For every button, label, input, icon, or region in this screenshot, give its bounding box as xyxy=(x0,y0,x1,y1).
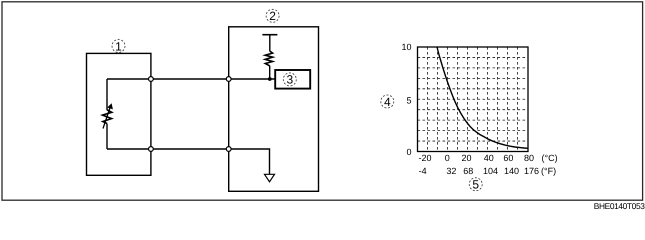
wire: thermistor branch bottom (inside sensor) xyxy=(107,148,151,150)
svg-text:10: 10 xyxy=(401,42,411,52)
graph plot border (axes) xyxy=(418,47,529,152)
svg-text:140: 140 xyxy=(504,166,519,176)
svg-text:32: 32 xyxy=(446,166,456,176)
terminal node: control unit bottom (open junction) xyxy=(226,147,231,152)
wire: signal into block 3 xyxy=(229,78,275,80)
svg-text:60: 60 xyxy=(503,153,513,163)
svg-text:1: 1 xyxy=(115,39,122,53)
resistor (pull-up in control unit) xyxy=(265,51,273,79)
sensor box 1 (coolant temperature sensor outline) xyxy=(87,53,151,175)
terminal node: sensor top (open junction) xyxy=(149,77,154,82)
callout 4 (resistance axis) xyxy=(381,95,394,109)
resistance vs temperature curve xyxy=(437,47,528,148)
wire: bottom ground wire sensor to control unit xyxy=(151,148,229,150)
terminal node: sensor bottom (open junction) xyxy=(149,147,154,152)
svg-text:(°F): (°F) xyxy=(541,166,556,176)
svg-text:5: 5 xyxy=(406,96,411,106)
x-axis Celsius labels xyxy=(418,153,534,163)
wire: ground run inside control unit xyxy=(229,149,270,174)
svg-text:(°C): (°C) xyxy=(542,153,558,163)
svg-text:176: 176 xyxy=(524,166,539,176)
control unit box 2 outline xyxy=(229,27,319,192)
svg-text:20: 20 xyxy=(461,153,471,163)
graph vertical dashed grid xyxy=(428,47,518,152)
callout 1 (sensor) xyxy=(112,39,125,53)
terminal node: control unit top (open junction) xyxy=(226,77,231,82)
block box 3 (gauge/amplifier block) xyxy=(275,70,310,89)
svg-text:40: 40 xyxy=(484,153,494,163)
svg-text:2: 2 xyxy=(269,9,276,23)
svg-text:-4: -4 xyxy=(419,166,427,176)
svg-text:68: 68 xyxy=(463,166,473,176)
power supply symbol xyxy=(262,35,277,52)
junction dot at resistor / signal wire xyxy=(268,77,272,81)
svg-text:3: 3 xyxy=(286,73,293,87)
callout 3 (block) xyxy=(283,73,296,87)
y-axis labels (resistance 0-10) xyxy=(401,42,411,157)
thermistor (variable resistor with arrow) xyxy=(103,79,113,149)
svg-text:5: 5 xyxy=(472,178,479,192)
svg-text:-20: -20 xyxy=(418,153,431,163)
wire: thermistor branch top (inside sensor) xyxy=(107,78,151,80)
wire: top signal wire sensor to control unit xyxy=(151,78,229,80)
svg-text:0: 0 xyxy=(445,153,450,163)
svg-text:4: 4 xyxy=(384,95,391,109)
x-axis Fahrenheit labels xyxy=(419,166,539,176)
svg-text:0: 0 xyxy=(406,147,411,157)
graph horizontal dashed grid xyxy=(418,57,529,141)
svg-text:80: 80 xyxy=(524,153,534,163)
svg-text:104: 104 xyxy=(483,166,498,176)
ground symbol (open arrow) xyxy=(265,174,275,182)
svg-text:BHE0140T053: BHE0140T053 xyxy=(594,201,645,211)
callout 2 (control unit) xyxy=(266,9,279,23)
callout 5 (temperature axis) xyxy=(469,178,482,192)
